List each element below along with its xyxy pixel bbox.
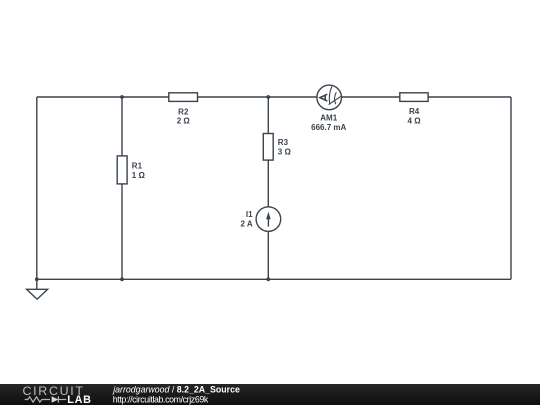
ammeter AM1 [317, 85, 342, 110]
wire left rail [36, 97, 38, 279]
svg-text:I1: I1 [246, 210, 253, 219]
wire top rail [37, 96, 511, 98]
node dot left-bottom [35, 277, 39, 281]
wire R1 branch [121, 97, 123, 279]
svg-text:666.7 mA: 666.7 mA [311, 123, 346, 132]
current source I1 [256, 207, 281, 232]
svg-text:AM1: AM1 [320, 114, 337, 123]
node dot R1 top [120, 95, 124, 99]
node dot R1 bottom [120, 277, 124, 281]
resistor R1 [117, 156, 127, 184]
svg-text:http://circuitlab.com/crjz69k: http://circuitlab.com/crjz69k [113, 395, 209, 405]
resistor R2 [169, 93, 198, 102]
svg-text:3 Ω: 3 Ω [278, 147, 292, 156]
svg-text:1 Ω: 1 Ω [132, 171, 146, 180]
wire bottom rail [37, 278, 511, 280]
ground [27, 289, 48, 299]
svg-text:2 A: 2 A [240, 220, 252, 229]
wire R3/I1 branch [267, 97, 269, 279]
svg-text:2 Ω: 2 Ω [177, 117, 191, 126]
svg-text:LAB: LAB [67, 394, 92, 405]
svg-text:jarrodgarwood / 8.2_2A_Source: jarrodgarwood / 8.2_2A_Source [112, 385, 240, 395]
svg-text:R1: R1 [132, 162, 143, 171]
svg-text:R4: R4 [409, 107, 420, 116]
wire right rail [510, 97, 512, 279]
CircuitLab logo symbol (resistor + diode) [25, 396, 67, 402]
ground stub [36, 279, 38, 289]
node dot I1 bottom [266, 277, 270, 281]
svg-text:4 Ω: 4 Ω [408, 116, 422, 125]
node dot R3 top [266, 95, 270, 99]
svg-text:R3: R3 [278, 138, 289, 147]
resistor R3 [263, 134, 273, 161]
svg-text:R2: R2 [178, 107, 189, 116]
resistor R4 [400, 93, 428, 102]
